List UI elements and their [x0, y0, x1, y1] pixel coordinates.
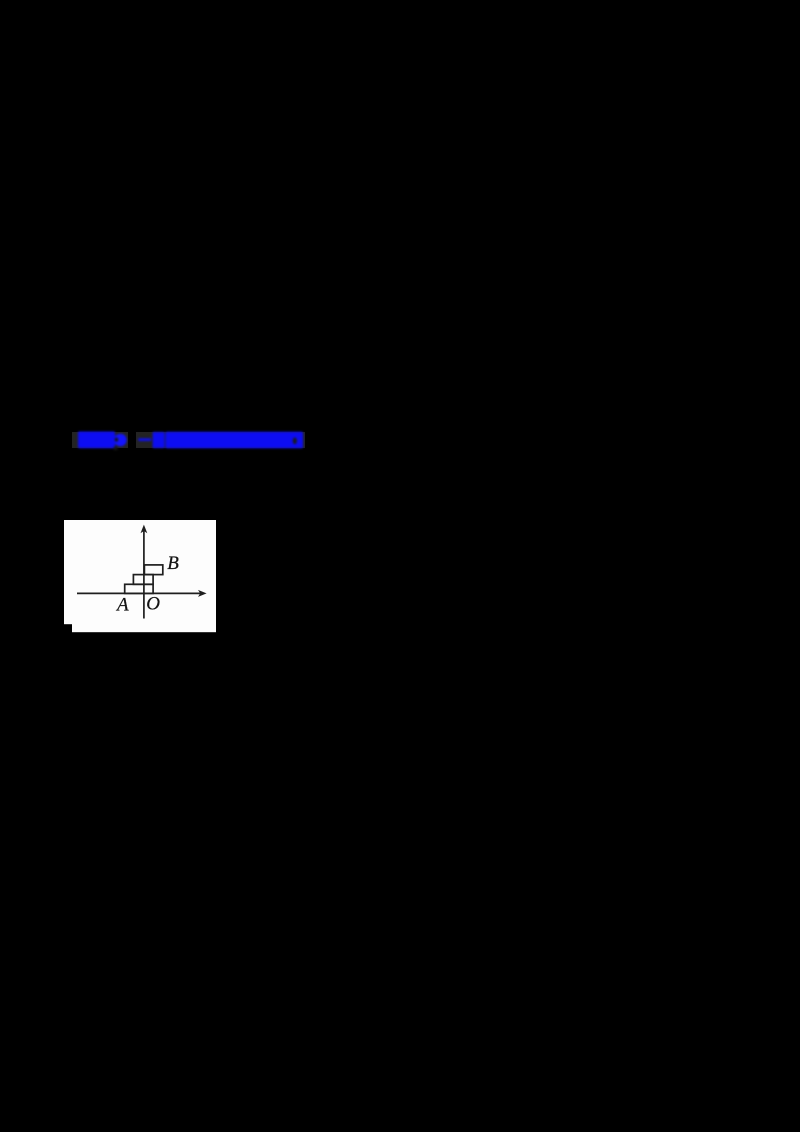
white background [64, 520, 216, 632]
step rect middle [133, 574, 153, 584]
svg-text:A: A [115, 594, 129, 615]
answer line highlight strip 1 [72, 432, 128, 449]
x-axis arrowhead [198, 590, 207, 597]
figure panel (white) [64, 520, 216, 633]
answer line highlight strip 2 [136, 432, 305, 448]
complex glyph [153, 432, 165, 448]
x-axis [77, 592, 201, 594]
step rect top [144, 565, 162, 575]
punctuation hole [293, 438, 297, 445]
dash glyph [138, 438, 151, 441]
black corner notch [64, 624, 72, 633]
svg-text:B: B [167, 553, 179, 574]
solid run of glyphs [166, 432, 304, 448]
round glyph [114, 434, 127, 447]
svg-text:O: O [146, 593, 160, 614]
y-axis arrowhead [141, 524, 148, 533]
word block "answer" [78, 432, 115, 449]
step rect bottom [125, 584, 153, 593]
y-axis [143, 531, 145, 619]
